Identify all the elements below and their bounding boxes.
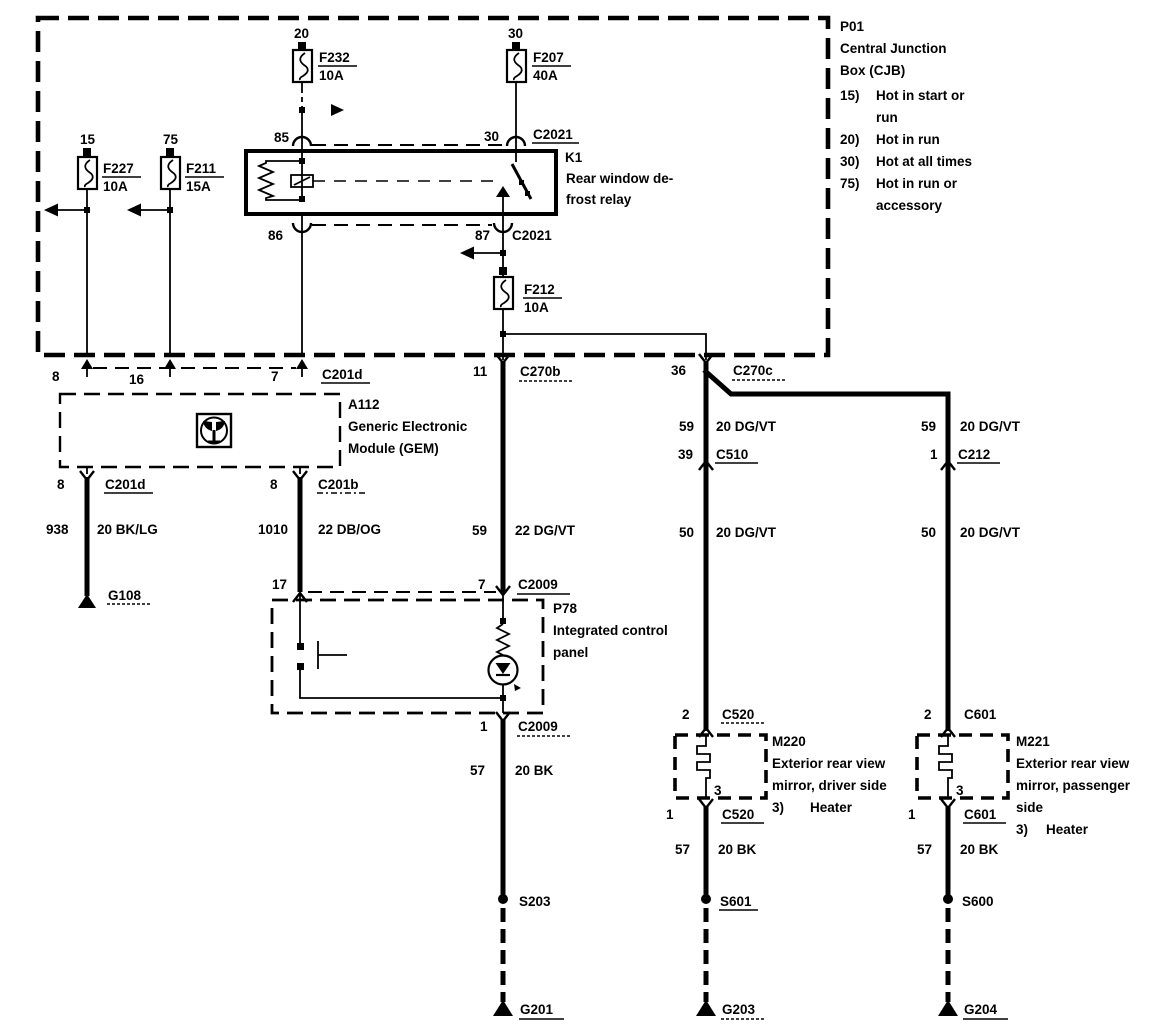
relay switch contact	[512, 146, 531, 199]
M220 heater element	[697, 735, 722, 798]
connector C601 pin 1	[908, 799, 1006, 823]
P01 label text block	[840, 19, 972, 213]
svg-text:C201b: C201b	[318, 477, 359, 492]
svg-text:G201: G201	[520, 1002, 554, 1017]
wire label 57 20 BK passenger	[917, 842, 999, 857]
P78 wire lamp to junction	[502, 684, 504, 713]
svg-text:3: 3	[714, 783, 722, 798]
C201d up arrow pin 7	[296, 359, 308, 377]
wire relay pin 85 internal	[301, 146, 303, 200]
svg-text:20 DG/VT: 20 DG/VT	[960, 525, 1021, 540]
P01 Central Junction Box dashed border	[38, 18, 828, 355]
svg-text:57: 57	[675, 842, 690, 857]
splice S203	[498, 894, 551, 909]
wire label 57 20 BK left	[470, 763, 554, 778]
svg-text:2: 2	[924, 707, 932, 722]
dashed ground wire to G203	[704, 908, 709, 1002]
wire label 938 20 BK/LG	[46, 522, 158, 537]
svg-text:20 BK: 20 BK	[515, 763, 554, 778]
svg-text:Generic Electronic: Generic Electronic	[348, 419, 468, 434]
junction on F211 wire	[167, 207, 173, 213]
splice S600	[943, 894, 994, 909]
connector C2009 pin 1	[480, 712, 570, 736]
dashed ground wire to G201	[501, 908, 506, 1002]
wire label 1010 22 DB/OG	[258, 522, 381, 537]
svg-text:10A: 10A	[319, 68, 344, 83]
dashed ground wire to G204	[946, 908, 951, 1002]
svg-text:30): 30)	[840, 154, 860, 169]
svg-text:22 DG/VT: 22 DG/VT	[515, 523, 576, 538]
svg-text:S203: S203	[519, 894, 551, 909]
svg-text:3: 3	[956, 783, 964, 798]
svg-text:57: 57	[470, 763, 485, 778]
floating right arrow marker	[331, 104, 344, 116]
fuse F207 40A	[507, 26, 571, 83]
svg-text:85: 85	[274, 130, 290, 145]
ground G203	[696, 1000, 766, 1019]
GEM output pin 8 C201d	[57, 467, 153, 493]
svg-text:7: 7	[478, 577, 486, 592]
svg-text:frost relay: frost relay	[566, 192, 632, 207]
wire circuit 57 20 BK driver	[704, 806, 709, 899]
svg-text:59: 59	[921, 419, 936, 434]
svg-text:1: 1	[908, 807, 916, 822]
wire F227 down to C201d	[86, 189, 88, 356]
arrow left from 87 wire	[460, 247, 503, 260]
svg-text:2: 2	[682, 707, 690, 722]
wire label 50 20 DG/VT passenger branch	[921, 525, 1021, 540]
svg-text:10A: 10A	[103, 179, 128, 194]
ground G108	[78, 588, 151, 608]
svg-text:938: 938	[46, 522, 69, 537]
svg-text:Hot in start or: Hot in start or	[876, 88, 965, 103]
svg-text:7: 7	[271, 369, 279, 384]
junction on F227 wire	[84, 207, 90, 213]
connector C2009 top line pins 17 7	[272, 577, 570, 594]
svg-text:C601: C601	[964, 707, 997, 722]
C201d up arrow pin 8	[81, 359, 93, 377]
svg-text:F212: F212	[524, 282, 555, 297]
GEM icon	[197, 414, 231, 447]
svg-text:C2009: C2009	[518, 577, 558, 592]
connector C601 pin 2	[924, 707, 997, 737]
wire branch to C270c pin 36	[503, 334, 706, 360]
svg-text:C520: C520	[722, 707, 754, 722]
C2009 pin 7 chevron	[496, 586, 510, 595]
arrow left from F211 wire	[127, 204, 170, 217]
svg-text:Module (GEM): Module (GEM)	[348, 441, 439, 456]
svg-text:86: 86	[268, 228, 284, 243]
svg-text:59: 59	[472, 523, 487, 538]
svg-text:C270b: C270b	[520, 364, 561, 379]
svg-text:8: 8	[52, 369, 60, 384]
svg-text:75: 75	[163, 132, 179, 147]
svg-text:1: 1	[666, 807, 674, 822]
connector C520 pin 2	[682, 707, 764, 737]
svg-text:20 DG/VT: 20 DG/VT	[960, 419, 1021, 434]
svg-text:accessory: accessory	[876, 198, 943, 213]
wire circuit 59 22 DG/VT from C270b to C2009 pin 7	[501, 362, 506, 592]
connector C270c pin 36	[671, 354, 787, 380]
connector arc pin 87	[494, 223, 512, 232]
svg-text:Rear window de-: Rear window de-	[566, 171, 673, 186]
svg-text:20 DG/VT: 20 DG/VT	[716, 525, 777, 540]
GEM A112 module box	[60, 394, 468, 467]
svg-text:C2021: C2021	[533, 127, 573, 142]
svg-text:Box (CJB): Box (CJB)	[840, 63, 905, 78]
svg-text:Hot in run: Hot in run	[876, 132, 940, 147]
svg-text:3): 3)	[1016, 822, 1028, 837]
svg-text:C520: C520	[722, 807, 754, 822]
svg-text:1: 1	[480, 719, 488, 734]
svg-text:C2021: C2021	[512, 228, 552, 243]
ground G201	[493, 1000, 564, 1019]
svg-text:59: 59	[679, 419, 694, 434]
svg-text:20 BK: 20 BK	[960, 842, 999, 857]
svg-text:15A: 15A	[186, 179, 211, 194]
svg-text:M220: M220	[772, 734, 806, 749]
svg-text:C201d: C201d	[322, 367, 363, 382]
svg-text:C270c: C270c	[733, 363, 773, 378]
wire circuit 57 20 BK left	[501, 719, 506, 899]
svg-text:30: 30	[508, 26, 523, 41]
svg-text:50: 50	[679, 525, 694, 540]
svg-text:A112: A112	[348, 397, 380, 412]
svg-text:20: 20	[294, 26, 309, 41]
svg-text:39: 39	[678, 447, 693, 462]
wire F232 down to relay pin 85	[301, 82, 303, 146]
M221 heater element	[939, 735, 964, 798]
wire F211 down to C201d	[169, 189, 171, 356]
wire F207 down to relay pin 30	[515, 82, 517, 146]
wire circuit 57 20 BK passenger	[946, 806, 951, 899]
M220 mirror box driver side	[675, 734, 887, 815]
svg-text:C510: C510	[716, 447, 748, 462]
svg-text:Heater: Heater	[810, 800, 853, 815]
svg-text:mirror, passenger: mirror, passenger	[1016, 778, 1131, 793]
connector arc pin 30	[507, 137, 525, 146]
relay coil winding	[259, 161, 302, 200]
wire label 50 20 DG/VT driver branch	[679, 525, 777, 540]
svg-text:S600: S600	[962, 894, 994, 909]
fuse F212 10A	[494, 267, 562, 315]
svg-text:M221: M221	[1016, 734, 1050, 749]
P78 integrated control panel box	[272, 600, 668, 713]
relay K1 box	[246, 150, 673, 214]
svg-text:K1: K1	[565, 150, 583, 165]
svg-text:F207: F207	[533, 50, 564, 65]
svg-text:17: 17	[272, 577, 287, 592]
svg-text:10A: 10A	[524, 300, 549, 315]
fuse F211 15A	[161, 132, 224, 194]
svg-text:3): 3)	[772, 800, 784, 815]
P78 switch actuator T	[318, 641, 347, 669]
svg-text:C201d: C201d	[105, 477, 146, 492]
svg-text:S601: S601	[720, 894, 752, 909]
svg-text:Heater: Heater	[1046, 822, 1089, 837]
svg-text:P01: P01	[840, 19, 865, 34]
wire label 59 20 DG/VT passenger branch	[921, 419, 1021, 434]
svg-text:C212: C212	[958, 447, 990, 462]
connector C212 pin 1	[930, 447, 1000, 470]
fuse F227 10A	[78, 132, 141, 194]
svg-text:30: 30	[484, 129, 499, 144]
svg-text:57: 57	[917, 842, 932, 857]
connector arc pin 86	[293, 223, 311, 232]
svg-text:G108: G108	[108, 588, 142, 603]
junction above resistor	[500, 618, 506, 624]
ground G204	[938, 1000, 1008, 1019]
svg-text:87: 87	[475, 228, 490, 243]
svg-text:8: 8	[57, 477, 65, 492]
svg-text:1: 1	[930, 447, 938, 462]
svg-text:36: 36	[671, 363, 687, 378]
svg-text:Exterior rear view: Exterior rear view	[772, 756, 886, 771]
wire relay 87 down to F212	[502, 214, 504, 276]
relay pin 87 arrow	[496, 186, 510, 214]
svg-text:mirror, driver side: mirror, driver side	[772, 778, 887, 793]
svg-text:F227: F227	[103, 161, 134, 176]
svg-text:panel: panel	[553, 645, 588, 660]
svg-text:Integrated control: Integrated control	[553, 623, 668, 638]
svg-text:16: 16	[129, 372, 145, 387]
connector C270b pin 11	[473, 354, 574, 381]
svg-text:20 BK/LG: 20 BK/LG	[97, 522, 158, 537]
svg-text:G204: G204	[964, 1002, 998, 1017]
junction below F232	[299, 107, 305, 113]
svg-text:F232: F232	[319, 50, 350, 65]
wire circuit 938 20 BK/LG	[85, 477, 90, 596]
wire label 57 20 BK driver	[675, 842, 757, 857]
svg-text:C2009: C2009	[518, 719, 558, 734]
svg-text:Central Junction: Central Junction	[840, 41, 947, 56]
M221 mirror box passenger side	[917, 734, 1131, 837]
P78 internal wire from pin 17	[299, 592, 301, 644]
connector C201d line pins 8 16 7	[52, 367, 370, 387]
relay coil armature box	[291, 175, 313, 187]
wire relay 86 down to C201d pin 7	[301, 214, 303, 356]
svg-text:50: 50	[921, 525, 936, 540]
svg-text:Hot at all times: Hot at all times	[876, 154, 972, 169]
svg-text:15): 15)	[840, 88, 860, 103]
wire label 59 22 DG/VT	[472, 523, 576, 538]
C2009 pin 17 chevron	[293, 593, 307, 602]
svg-text:11: 11	[473, 364, 488, 379]
junction on 87 wire	[500, 250, 506, 256]
connector C2021 bottom line	[268, 225, 552, 243]
GEM output pin 8 C201b	[270, 467, 366, 493]
P78 switch contacts	[297, 643, 304, 670]
C201d up arrow pin 16	[164, 359, 176, 377]
P78 internal wire from pin 7	[502, 592, 504, 624]
svg-text:side: side	[1016, 800, 1044, 815]
svg-text:75): 75)	[840, 176, 860, 191]
P78 resistor	[497, 624, 509, 655]
fuse F232 10A	[293, 26, 357, 83]
svg-text:run: run	[876, 110, 898, 125]
svg-text:Hot in run or: Hot in run or	[876, 176, 958, 191]
svg-text:Exterior rear view: Exterior rear view	[1016, 756, 1130, 771]
svg-text:G203: G203	[722, 1002, 756, 1017]
svg-text:C601: C601	[964, 807, 997, 822]
svg-text:15: 15	[80, 132, 96, 147]
svg-text:P78: P78	[553, 601, 578, 616]
junction relay coil top	[299, 158, 305, 164]
svg-text:20 DG/VT: 20 DG/VT	[716, 419, 777, 434]
P78 indicator LED	[489, 656, 522, 692]
svg-text:1010: 1010	[258, 522, 288, 537]
svg-text:22 DB/OG: 22 DB/OG	[318, 522, 381, 537]
wire from C270c down and branch to passenger side	[704, 362, 948, 731]
connector C510 pin 39	[678, 447, 758, 470]
wire label 59 20 DG/VT driver branch	[679, 419, 777, 434]
junction below F212	[500, 331, 506, 337]
wire F212 down through junction to C270b	[502, 309, 504, 360]
svg-text:F211: F211	[186, 161, 217, 176]
svg-text:20 BK: 20 BK	[718, 842, 757, 857]
junction relay coil bottom	[299, 196, 305, 202]
arrow left from F227 wire	[44, 204, 87, 217]
svg-text:20): 20)	[840, 132, 860, 147]
connector C520 pin 1	[666, 799, 764, 823]
connector C2021 top line	[274, 127, 579, 145]
junction below lamp	[500, 695, 506, 701]
svg-text:40A: 40A	[533, 68, 558, 83]
relay mechanical link dashed	[313, 180, 498, 182]
wire circuit 1010 22 DB/OG	[298, 477, 303, 592]
P78 wire from switch to lamp	[300, 668, 503, 698]
splice S601	[701, 894, 758, 910]
connector arc pin 85	[293, 137, 311, 146]
svg-text:8: 8	[270, 477, 278, 492]
